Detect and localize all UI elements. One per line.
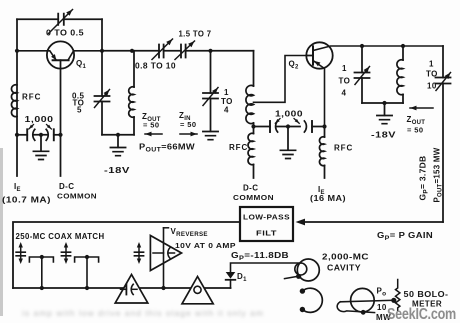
svg-text:(16 MA): (16 MA) — [310, 194, 346, 203]
svg-text:1,000: 1,000 — [275, 110, 303, 119]
svg-text:COMMON: COMMON — [57, 192, 97, 201]
svg-text:RFC: RFC — [334, 144, 353, 153]
svg-text:= 50: = 50 — [180, 120, 196, 129]
svg-text:= 50: = 50 — [143, 121, 159, 130]
svg-text:RFC: RFC — [229, 143, 248, 152]
svg-text:250-MC COAX MATCH: 250-MC COAX MATCH — [16, 232, 105, 241]
svg-text:10: 10 — [427, 82, 437, 91]
svg-text:TO: TO — [426, 70, 438, 79]
svg-text:CAVITY: CAVITY — [327, 264, 361, 273]
svg-text:1,000: 1,000 — [25, 115, 54, 124]
svg-text:= 50: = 50 — [407, 126, 423, 135]
svg-text:COMMON: COMMON — [233, 193, 274, 202]
svg-text:LOW-PASS: LOW-PASS — [243, 213, 290, 222]
svg-text:5: 5 — [77, 106, 82, 115]
svg-text:10V AT 0 AMP: 10V AT 0 AMP — [175, 241, 236, 250]
svg-text:-18V: -18V — [371, 131, 396, 140]
svg-text:RFC: RFC — [22, 93, 41, 102]
svg-text:D-C: D-C — [243, 184, 258, 193]
svg-text:2,000-MC: 2,000-MC — [322, 253, 369, 262]
svg-text:FILT: FILT — [256, 229, 277, 238]
svg-text:10: 10 — [377, 303, 387, 312]
svg-text:0.8 TO 10: 0.8 TO 10 — [135, 62, 176, 71]
svg-text:0 TO 0.5: 0 TO 0.5 — [46, 29, 84, 38]
svg-text:SeekIC.com: SeekIC.com — [387, 306, 456, 323]
svg-text:4: 4 — [342, 89, 347, 98]
svg-text:4: 4 — [224, 106, 229, 115]
svg-text:1: 1 — [224, 88, 229, 97]
svg-text:50 BOLO-: 50 BOLO- — [404, 290, 449, 299]
svg-text:1.5 TO 7: 1.5 TO 7 — [179, 30, 212, 39]
svg-text:1: 1 — [342, 64, 347, 73]
svg-text:(10.7 MA): (10.7 MA) — [2, 196, 51, 205]
svg-text:TO: TO — [339, 77, 351, 86]
svg-text:1: 1 — [429, 60, 434, 69]
svg-text:D-C: D-C — [59, 182, 74, 191]
svg-text:-18V: -18V — [104, 166, 130, 175]
